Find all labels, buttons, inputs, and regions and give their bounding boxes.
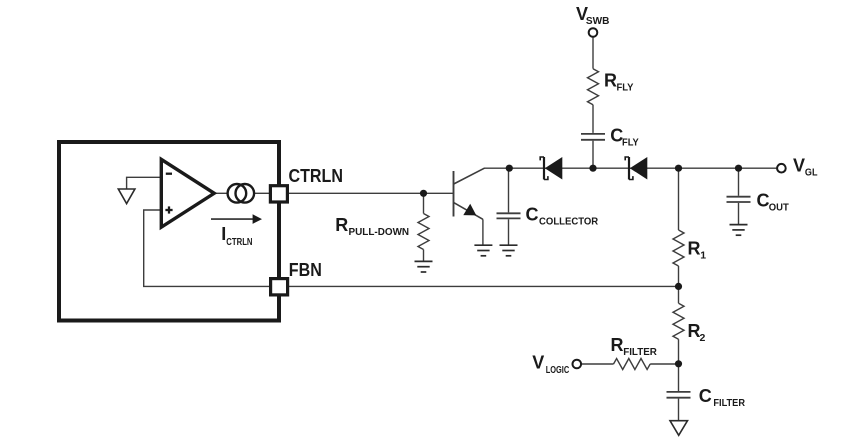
svg-text:FLY: FLY — [617, 82, 634, 94]
svg-text:R: R — [335, 215, 348, 235]
svg-text:OUT: OUT — [769, 201, 790, 213]
svg-text:FLY: FLY — [622, 137, 639, 149]
svg-text:V: V — [793, 155, 805, 175]
svg-text:C: C — [526, 205, 539, 225]
svg-text:2: 2 — [700, 332, 706, 344]
svg-text:PULL-DOWN: PULL-DOWN — [349, 226, 410, 238]
svg-text:V: V — [532, 352, 544, 372]
svg-text:1: 1 — [700, 250, 706, 262]
svg-text:R: R — [604, 71, 617, 91]
svg-text:SWB: SWB — [586, 15, 610, 27]
svg-text:C: C — [757, 190, 770, 210]
svg-text:GL: GL — [805, 167, 818, 179]
svg-text:FBN: FBN — [289, 260, 322, 280]
svg-text:FILTER: FILTER — [713, 397, 745, 409]
svg-text:R: R — [611, 335, 624, 355]
svg-text:CTRLN: CTRLN — [226, 236, 252, 248]
svg-text:LOGIC: LOGIC — [546, 364, 570, 376]
svg-text:COLLECTOR: COLLECTOR — [539, 216, 599, 228]
svg-text:C: C — [699, 386, 712, 406]
svg-text:CTRLN: CTRLN — [289, 166, 344, 186]
svg-text:FILTER: FILTER — [623, 346, 657, 358]
svg-text:R: R — [688, 239, 701, 259]
